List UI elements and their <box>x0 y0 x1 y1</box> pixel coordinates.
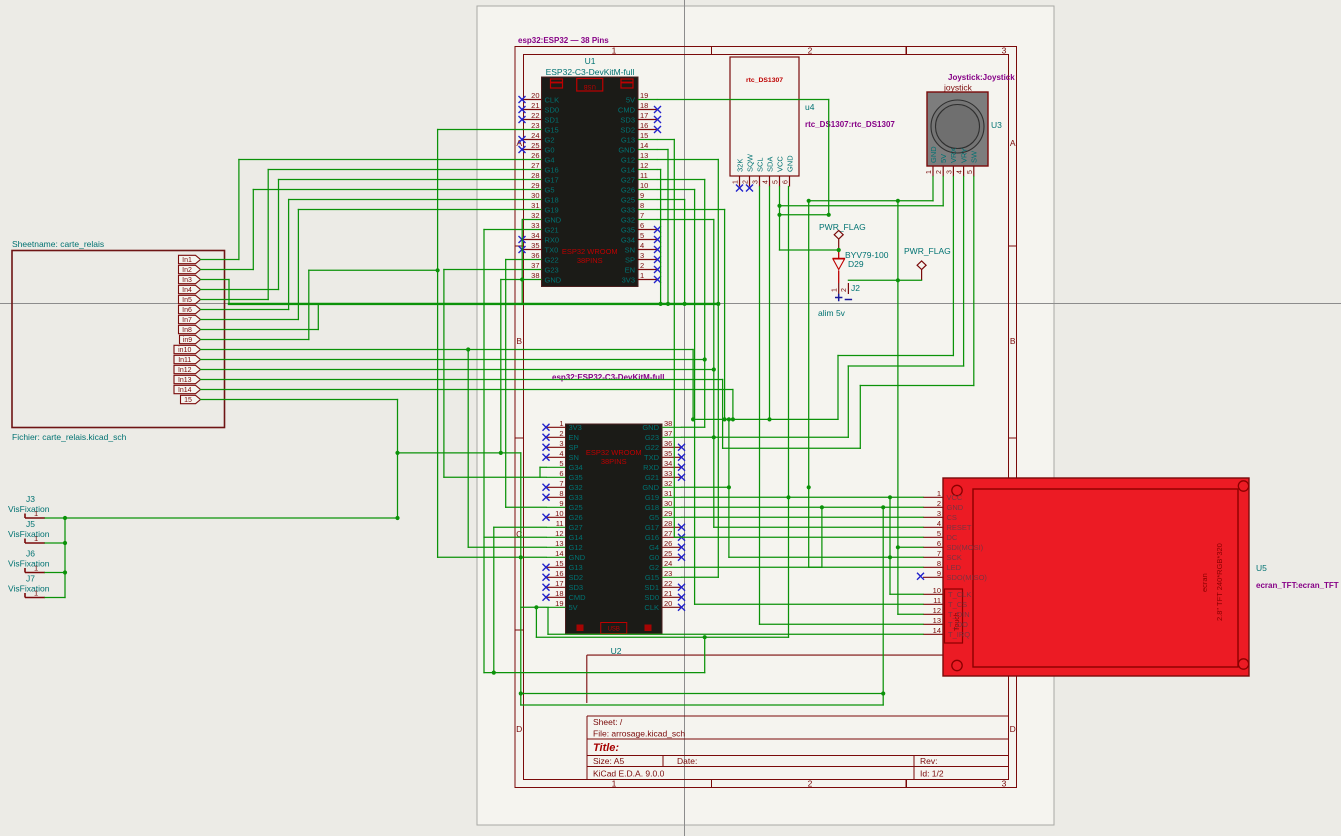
svg-text:27: 27 <box>531 161 539 170</box>
svg-text:2: 2 <box>808 46 813 56</box>
svg-text:G34: G34 <box>621 235 635 244</box>
svg-text:In8: In8 <box>182 327 192 334</box>
svg-text:VRY: VRY <box>959 148 968 163</box>
svg-text:G25: G25 <box>621 195 635 204</box>
svg-text:28: 28 <box>531 171 539 180</box>
svg-text:5: 5 <box>773 180 780 184</box>
svg-text:G33: G33 <box>569 493 583 502</box>
svg-text:G19: G19 <box>645 493 659 502</box>
svg-text:19: 19 <box>640 91 648 100</box>
svg-text:3V3: 3V3 <box>622 275 635 284</box>
svg-text:6: 6 <box>559 469 563 478</box>
svg-text:In13: In13 <box>178 377 192 384</box>
svg-text:RX0: RX0 <box>545 235 560 244</box>
svg-text:J6: J6 <box>26 549 35 559</box>
svg-text:VisFixation: VisFixation <box>8 504 50 514</box>
svg-text:32K: 32K <box>735 159 744 172</box>
svg-text:SD0: SD0 <box>545 105 560 114</box>
svg-text:G22: G22 <box>645 443 659 452</box>
svg-text:rtc_DS1307:rtc_DS1307: rtc_DS1307:rtc_DS1307 <box>805 120 895 129</box>
svg-text:15: 15 <box>184 397 192 404</box>
svg-text:18: 18 <box>555 589 563 598</box>
svg-text:7: 7 <box>937 549 941 558</box>
svg-text:G25: G25 <box>569 503 583 512</box>
svg-text:5: 5 <box>967 170 974 174</box>
svg-text:Size: A5: Size: A5 <box>593 756 624 766</box>
svg-text:3: 3 <box>559 439 563 448</box>
svg-text:SDA: SDA <box>765 157 774 172</box>
svg-text:T_DO: T_DO <box>948 620 968 629</box>
svg-text:SD2: SD2 <box>569 573 584 582</box>
svg-text:1: 1 <box>34 589 38 598</box>
svg-text:GND: GND <box>929 146 938 163</box>
svg-text:35: 35 <box>664 449 672 458</box>
svg-text:File: arrosage.kicad_sch: File: arrosage.kicad_sch <box>593 729 685 739</box>
svg-text:TXD: TXD <box>644 453 660 462</box>
svg-text:6: 6 <box>783 180 790 184</box>
svg-text:11: 11 <box>556 519 564 528</box>
svg-text:J2: J2 <box>851 283 860 293</box>
svg-text:in9: in9 <box>183 337 192 344</box>
svg-text:11: 11 <box>640 171 648 180</box>
svg-text:In5: In5 <box>182 297 192 304</box>
svg-text:G21: G21 <box>645 473 659 482</box>
svg-text:17: 17 <box>555 579 563 588</box>
svg-text:J7: J7 <box>26 574 35 584</box>
svg-text:GND: GND <box>785 155 794 172</box>
svg-text:14: 14 <box>555 549 563 558</box>
svg-text:SCL: SCL <box>755 157 764 172</box>
svg-text:32: 32 <box>664 479 672 488</box>
svg-text:4: 4 <box>763 180 770 184</box>
svg-text:SDO(MISO): SDO(MISO) <box>947 573 988 582</box>
svg-text:5V: 5V <box>569 603 578 612</box>
svg-text:3: 3 <box>1002 46 1007 56</box>
svg-text:2: 2 <box>559 429 563 438</box>
svg-text:In3: In3 <box>182 277 192 284</box>
svg-text:In12: In12 <box>178 367 192 374</box>
svg-text:26: 26 <box>531 151 539 160</box>
svg-text:CLK: CLK <box>644 603 659 612</box>
svg-text:37: 37 <box>531 261 539 270</box>
svg-text:T_IRQ: T_IRQ <box>948 630 970 639</box>
svg-text:U5: U5 <box>1256 563 1267 573</box>
svg-text:U2: U2 <box>611 646 622 656</box>
svg-text:G23: G23 <box>645 433 659 442</box>
svg-text:G26: G26 <box>569 513 583 522</box>
svg-text:34: 34 <box>531 231 539 240</box>
svg-text:esp32:ESP32-C3-DevKitM-full: esp32:ESP32-C3-DevKitM-full <box>552 373 664 382</box>
svg-text:1: 1 <box>926 170 933 174</box>
svg-text:2: 2 <box>936 170 943 174</box>
svg-text:G34: G34 <box>569 463 583 472</box>
svg-text:10: 10 <box>555 509 563 518</box>
svg-text:PWR_FLAG: PWR_FLAG <box>819 222 866 232</box>
svg-text:21: 21 <box>664 589 672 598</box>
svg-text:1: 1 <box>559 419 563 428</box>
svg-text:1: 1 <box>832 288 839 292</box>
svg-text:esp32:ESP32 — 38 Pins: esp32:ESP32 — 38 Pins <box>518 36 609 45</box>
svg-text:USB: USB <box>608 627 620 633</box>
svg-text:CLK: CLK <box>545 95 560 104</box>
svg-text:2.8" TFT 240*RGB*320: 2.8" TFT 240*RGB*320 <box>1215 543 1224 621</box>
svg-text:In2: In2 <box>182 267 192 274</box>
svg-text:G14: G14 <box>621 165 635 174</box>
svg-text:G17: G17 <box>545 175 559 184</box>
svg-text:27: 27 <box>664 529 672 538</box>
svg-text:2: 2 <box>937 499 941 508</box>
svg-text:7: 7 <box>640 211 644 220</box>
svg-text:GND: GND <box>947 503 964 512</box>
svg-text:G12: G12 <box>621 155 635 164</box>
svg-text:29: 29 <box>664 509 672 518</box>
svg-text:33: 33 <box>664 469 672 478</box>
svg-text:SD3: SD3 <box>620 115 635 124</box>
svg-text:G19: G19 <box>545 205 559 214</box>
svg-text:23: 23 <box>531 121 539 130</box>
svg-text:36: 36 <box>531 251 539 260</box>
svg-text:G35: G35 <box>569 473 583 482</box>
svg-text:10: 10 <box>933 586 941 595</box>
svg-text:G4: G4 <box>649 543 659 552</box>
svg-text:G18: G18 <box>545 195 559 204</box>
svg-text:G4: G4 <box>545 155 555 164</box>
svg-text:In1: In1 <box>182 257 192 264</box>
svg-text:1: 1 <box>640 271 644 280</box>
svg-text:3: 3 <box>946 170 953 174</box>
svg-text:G23: G23 <box>545 265 559 274</box>
svg-text:5: 5 <box>640 231 644 240</box>
svg-text:D: D <box>516 724 522 734</box>
svg-text:joystick: joystick <box>943 83 973 93</box>
svg-text:ecran: ecran <box>1200 573 1209 592</box>
svg-text:12: 12 <box>640 161 648 170</box>
svg-text:Date:: Date: <box>677 756 697 766</box>
svg-text:GND: GND <box>545 215 562 224</box>
svg-text:28: 28 <box>664 519 672 528</box>
svg-text:alim 5v: alim 5v <box>818 308 846 318</box>
svg-text:SCK: SCK <box>947 553 962 562</box>
svg-text:ESP32 WROOM: ESP32 WROOM <box>562 247 618 256</box>
svg-text:In6: In6 <box>182 307 192 314</box>
svg-text:26: 26 <box>664 539 672 548</box>
svg-text:SDI(MOSI): SDI(MOSI) <box>947 543 984 552</box>
svg-text:Id: 1/2: Id: 1/2 <box>920 769 944 779</box>
svg-text:7: 7 <box>559 479 563 488</box>
svg-text:SD1: SD1 <box>545 115 560 124</box>
svg-text:B: B <box>516 336 522 346</box>
svg-text:4: 4 <box>640 241 644 250</box>
svg-text:SN: SN <box>625 245 635 254</box>
svg-text:EN: EN <box>625 265 635 274</box>
svg-text:2: 2 <box>841 288 848 292</box>
svg-text:GND: GND <box>618 145 635 154</box>
svg-text:G17: G17 <box>645 523 659 532</box>
svg-text:8: 8 <box>640 201 644 210</box>
svg-text:CMD: CMD <box>618 105 636 114</box>
svg-text:G22: G22 <box>545 255 559 264</box>
svg-text:G33: G33 <box>621 205 635 214</box>
svg-text:Joystick:Joystick: Joystick:Joystick <box>948 73 1015 82</box>
svg-text:USB: USB <box>584 83 596 89</box>
svg-text:B: B <box>1010 336 1016 346</box>
svg-text:J3: J3 <box>26 494 35 504</box>
svg-text:36: 36 <box>664 439 672 448</box>
svg-text:30: 30 <box>664 499 672 508</box>
svg-text:24: 24 <box>664 559 672 568</box>
svg-text:3: 3 <box>1002 779 1007 789</box>
svg-text:G21: G21 <box>545 225 559 234</box>
svg-text:38: 38 <box>664 419 672 428</box>
svg-text:6: 6 <box>937 539 941 548</box>
svg-text:U1: U1 <box>585 56 596 66</box>
svg-text:In4: In4 <box>182 287 192 294</box>
svg-text:PWR_FLAG: PWR_FLAG <box>904 246 951 256</box>
svg-text:38: 38 <box>531 271 539 280</box>
svg-text:18: 18 <box>640 101 648 110</box>
svg-text:In14: In14 <box>178 387 192 394</box>
svg-text:14: 14 <box>933 626 941 635</box>
svg-text:31: 31 <box>531 201 539 210</box>
svg-text:G26: G26 <box>621 185 635 194</box>
svg-text:1: 1 <box>34 509 38 518</box>
svg-text:RXD: RXD <box>643 463 659 472</box>
svg-text:1: 1 <box>733 180 740 184</box>
svg-text:6: 6 <box>640 221 644 230</box>
svg-text:LED: LED <box>947 563 962 572</box>
svg-text:1: 1 <box>612 779 617 789</box>
svg-text:SN: SN <box>569 453 579 462</box>
svg-text:1: 1 <box>34 534 38 543</box>
svg-text:G0: G0 <box>545 145 555 154</box>
svg-text:G13: G13 <box>621 135 635 144</box>
svg-text:G5: G5 <box>649 513 659 522</box>
svg-text:T_DIN: T_DIN <box>948 610 970 619</box>
svg-text:13: 13 <box>640 151 648 160</box>
svg-text:9: 9 <box>937 569 941 578</box>
svg-text:13: 13 <box>933 616 941 625</box>
svg-text:Title:: Title: <box>593 742 619 754</box>
svg-text:24: 24 <box>531 131 539 140</box>
svg-text:EN: EN <box>569 433 579 442</box>
svg-text:19: 19 <box>555 599 563 608</box>
svg-text:T_CLK: T_CLK <box>948 590 971 599</box>
svg-text:ESP32 WROOM: ESP32 WROOM <box>586 448 642 457</box>
svg-text:34: 34 <box>664 459 672 468</box>
svg-text:25: 25 <box>664 549 672 558</box>
svg-text:RESET: RESET <box>947 523 972 532</box>
svg-text:4: 4 <box>937 519 941 528</box>
svg-text:SD1: SD1 <box>644 583 659 592</box>
svg-text:1: 1 <box>34 564 38 573</box>
svg-text:G27: G27 <box>569 523 583 532</box>
svg-text:in10: in10 <box>178 347 191 354</box>
svg-text:VRX: VRX <box>949 148 958 163</box>
svg-text:rtc_DS1307: rtc_DS1307 <box>746 77 783 84</box>
svg-text:J5: J5 <box>26 519 35 529</box>
svg-text:G12: G12 <box>569 543 583 552</box>
svg-text:G2: G2 <box>545 135 555 144</box>
svg-text:5: 5 <box>937 529 941 538</box>
svg-text:G13: G13 <box>569 563 583 572</box>
svg-text:G16: G16 <box>645 533 659 542</box>
svg-text:5V: 5V <box>939 154 948 163</box>
svg-text:3V3: 3V3 <box>569 423 582 432</box>
svg-text:31: 31 <box>664 489 672 498</box>
svg-text:12: 12 <box>933 606 941 615</box>
svg-text:15: 15 <box>640 131 648 140</box>
svg-text:SW: SW <box>970 150 979 163</box>
svg-text:In11: In11 <box>178 357 191 364</box>
svg-text:20: 20 <box>664 599 672 608</box>
svg-text:A: A <box>1010 138 1016 148</box>
svg-text:G27: G27 <box>621 175 635 184</box>
svg-text:3: 3 <box>640 251 644 260</box>
svg-text:Fichier: carte_relais.kicad_sc: Fichier: carte_relais.kicad_sch <box>12 432 127 442</box>
svg-text:37: 37 <box>664 429 672 438</box>
svg-text:Sheetname: carte_relais: Sheetname: carte_relais <box>12 239 104 249</box>
svg-text:4: 4 <box>957 170 964 174</box>
svg-text:11: 11 <box>933 596 941 605</box>
svg-text:1: 1 <box>937 489 941 498</box>
svg-text:SP: SP <box>569 443 579 452</box>
svg-text:14: 14 <box>640 141 648 150</box>
svg-text:2: 2 <box>640 261 644 270</box>
svg-text:G14: G14 <box>569 533 583 542</box>
svg-text:SQW: SQW <box>745 153 754 172</box>
svg-text:25: 25 <box>531 141 539 150</box>
svg-text:D: D <box>1010 724 1016 734</box>
svg-text:ecran_TFT:ecran_TFT: ecran_TFT:ecran_TFT <box>1256 581 1339 590</box>
svg-text:D29: D29 <box>848 259 864 269</box>
svg-text:21: 21 <box>531 101 539 110</box>
svg-text:VCC: VCC <box>947 493 963 502</box>
svg-text:G32: G32 <box>621 215 635 224</box>
svg-text:9: 9 <box>559 499 563 508</box>
svg-text:CMD: CMD <box>569 593 587 602</box>
svg-text:23: 23 <box>664 569 672 578</box>
svg-text:VisFixation: VisFixation <box>8 529 50 539</box>
svg-text:SD3: SD3 <box>569 583 584 592</box>
svg-text:U3: U3 <box>991 120 1002 130</box>
svg-text:16: 16 <box>640 121 648 130</box>
svg-text:GND: GND <box>545 275 562 284</box>
svg-text:G35: G35 <box>621 225 635 234</box>
svg-text:GND: GND <box>569 553 586 562</box>
svg-text:8: 8 <box>937 559 941 568</box>
svg-text:29: 29 <box>531 181 539 190</box>
svg-text:2: 2 <box>743 180 750 184</box>
svg-text:VisFixation: VisFixation <box>8 559 50 569</box>
svg-text:KiCad E.D.A. 9.0.0: KiCad E.D.A. 9.0.0 <box>593 769 665 779</box>
svg-text:5: 5 <box>559 459 563 468</box>
svg-text:GND: GND <box>642 483 659 492</box>
svg-text:33: 33 <box>531 221 539 230</box>
svg-text:5V: 5V <box>626 95 635 104</box>
svg-text:16: 16 <box>555 569 563 578</box>
svg-text:TX0: TX0 <box>545 245 559 254</box>
svg-text:17: 17 <box>640 111 648 120</box>
svg-text:Rev:: Rev: <box>920 756 937 766</box>
svg-text:35: 35 <box>531 241 539 250</box>
svg-text:G32: G32 <box>569 483 583 492</box>
svg-text:G16: G16 <box>545 165 559 174</box>
svg-text:13: 13 <box>555 539 563 548</box>
svg-text:22: 22 <box>531 111 539 120</box>
svg-text:38PINS: 38PINS <box>577 256 603 265</box>
svg-text:12: 12 <box>555 529 563 538</box>
svg-text:1: 1 <box>612 46 617 56</box>
svg-text:3: 3 <box>937 509 941 518</box>
svg-text:9: 9 <box>640 191 644 200</box>
svg-text:T_CS: T_CS <box>948 600 967 609</box>
svg-text:15: 15 <box>555 559 563 568</box>
svg-text:10: 10 <box>640 181 648 190</box>
svg-text:32: 32 <box>531 211 539 220</box>
svg-text:G2: G2 <box>649 563 659 572</box>
svg-text:G15: G15 <box>645 573 659 582</box>
svg-text:SP: SP <box>625 255 635 264</box>
svg-text:VisFixation: VisFixation <box>8 584 50 594</box>
svg-text:u4: u4 <box>805 102 815 112</box>
svg-text:38PINS: 38PINS <box>601 457 627 466</box>
svg-text:ESP32-C3-DevKitM-full: ESP32-C3-DevKitM-full <box>546 67 635 77</box>
svg-text:3: 3 <box>753 180 760 184</box>
svg-text:SD0: SD0 <box>644 593 659 602</box>
svg-text:DC: DC <box>947 533 958 542</box>
svg-text:In7: In7 <box>182 317 192 324</box>
svg-text:G18: G18 <box>645 503 659 512</box>
svg-text:22: 22 <box>664 579 672 588</box>
svg-text:30: 30 <box>531 191 539 200</box>
svg-text:G0: G0 <box>649 553 659 562</box>
svg-text:8: 8 <box>559 489 563 498</box>
svg-text:20: 20 <box>531 91 539 100</box>
svg-text:G5: G5 <box>545 185 555 194</box>
svg-text:G15: G15 <box>545 125 559 134</box>
svg-text:GND: GND <box>642 423 659 432</box>
svg-text:SD2: SD2 <box>620 125 635 134</box>
svg-text:4: 4 <box>559 449 563 458</box>
svg-text:Sheet: /: Sheet: / <box>593 717 623 727</box>
svg-text:2: 2 <box>808 779 813 789</box>
svg-text:CS: CS <box>947 513 957 522</box>
svg-text:VCC: VCC <box>775 156 784 172</box>
